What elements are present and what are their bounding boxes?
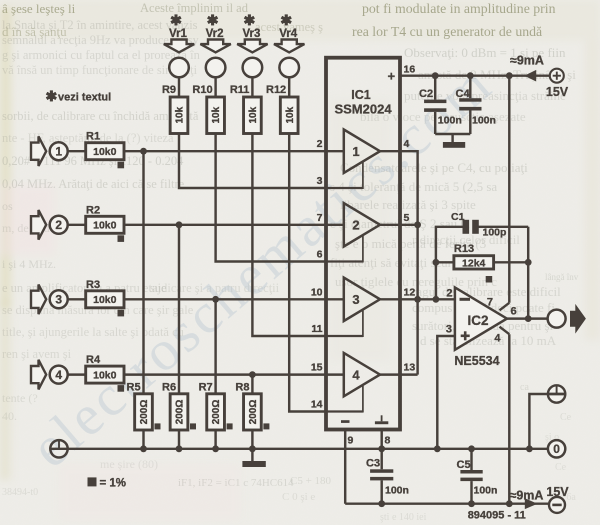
wire bbox=[124, 150, 326, 152]
svg-text:iF1, iF2 = iC1 c 74HC614: iF1, iF2 = iC1 c 74HC614 bbox=[178, 477, 294, 489]
svg-text:rea lor T4 cu un generator de: rea lor T4 cu un generator de undă bbox=[352, 24, 542, 39]
svg-text:R2: R2 bbox=[86, 204, 100, 216]
control arrow Vr3 bbox=[237, 40, 267, 53]
wiper terminal Vr1 bbox=[169, 58, 189, 78]
svg-text:ca: ca bbox=[520, 382, 529, 393]
svg-text:2: 2 bbox=[446, 288, 452, 300]
svg-text:2: 2 bbox=[352, 218, 359, 233]
wiper terminal Vr4 bbox=[279, 58, 299, 78]
svg-text:â şese leşteş li: â şese leşteş li bbox=[2, 1, 76, 16]
junction R8/0V bbox=[249, 445, 256, 452]
output wire bbox=[507, 317, 548, 319]
current arrow 9mA negative bbox=[525, 498, 538, 509]
svg-text:C 0 şi e: C 0 şi e bbox=[282, 491, 315, 503]
svg-text:R11: R11 bbox=[230, 84, 250, 96]
svg-text:Vr3: Vr3 bbox=[242, 28, 260, 40]
pin 4 supply wire bbox=[500, 327, 510, 335]
svg-text:200Ω: 200Ω bbox=[175, 400, 186, 425]
svg-text:100n: 100n bbox=[472, 115, 496, 127]
svg-text:10k: 10k bbox=[175, 106, 186, 123]
capacitor C3 bbox=[380, 449, 382, 470]
resistor R4 bbox=[86, 366, 124, 383]
svg-text:os: os bbox=[2, 199, 13, 213]
wire bbox=[68, 373, 86, 375]
svg-text:✱: ✱ bbox=[46, 88, 58, 104]
resistor R12 bbox=[280, 97, 298, 134]
wire bbox=[251, 77, 253, 97]
wiper terminal Vr3 bbox=[243, 58, 263, 78]
svg-text:R6: R6 bbox=[162, 382, 176, 394]
wire bbox=[124, 224, 326, 226]
resistor R3 bbox=[86, 291, 124, 308]
svg-text:10k0: 10k0 bbox=[93, 220, 117, 232]
wire bbox=[251, 375, 253, 394]
svg-text:ren şi avem şi: ren şi avem şi bbox=[2, 347, 72, 361]
wire bbox=[124, 373, 326, 375]
svg-text:200Ω: 200Ω bbox=[248, 400, 259, 425]
svg-text:14: 14 bbox=[311, 399, 323, 411]
pin 7 supply wire bbox=[500, 303, 510, 311]
wire bbox=[214, 430, 216, 449]
wire bbox=[478, 226, 528, 228]
resistor R6 bbox=[170, 394, 188, 430]
svg-text:11: 11 bbox=[311, 323, 322, 335]
wire bbox=[142, 430, 144, 449]
resistor R7 bbox=[207, 394, 225, 430]
svg-text:12: 12 bbox=[404, 286, 416, 298]
svg-text:R4: R4 bbox=[86, 354, 101, 366]
svg-text:2: 2 bbox=[317, 138, 323, 150]
svg-text:2: 2 bbox=[55, 218, 62, 232]
svg-text:+: + bbox=[388, 69, 396, 84]
wire bbox=[252, 134, 326, 337]
svg-text:NE5534: NE5534 bbox=[454, 354, 499, 368]
svg-text:C5: C5 bbox=[457, 459, 471, 471]
svg-text:1: 1 bbox=[352, 144, 359, 159]
svg-text:✱: ✱ bbox=[170, 12, 182, 28]
IC U1 SSM2024 body bbox=[326, 58, 400, 430]
terminal 0V output bbox=[548, 440, 565, 457]
svg-text:7: 7 bbox=[487, 297, 493, 309]
svg-text:15V: 15V bbox=[546, 85, 569, 99]
svg-text:6: 6 bbox=[317, 249, 323, 261]
wire bbox=[214, 77, 216, 97]
resistor R8 bbox=[244, 394, 262, 430]
capacitor C5 bbox=[468, 445, 475, 452]
VCA amplifier 1 bbox=[344, 130, 380, 173]
wire control stub bbox=[326, 260, 363, 262]
wire bbox=[289, 134, 326, 412]
input terminal 3 bbox=[50, 290, 68, 308]
capacitor C1 bbox=[463, 220, 470, 234]
input arrow J4 bbox=[31, 360, 46, 390]
svg-text:= 1%: = 1% bbox=[100, 478, 127, 490]
wire bbox=[179, 134, 326, 189]
wire bbox=[216, 134, 326, 262]
node divider 1 bbox=[140, 148, 147, 155]
svg-text:12k4: 12k4 bbox=[462, 257, 486, 269]
svg-text:lângă înv: lângă înv bbox=[545, 272, 579, 282]
node divider 4 bbox=[249, 371, 256, 378]
svg-text:R12: R12 bbox=[266, 84, 286, 96]
svg-text:R13: R13 bbox=[454, 243, 474, 255]
wire bbox=[142, 151, 144, 394]
svg-text:15V: 15V bbox=[546, 485, 569, 499]
wire bbox=[494, 261, 529, 263]
pin 5 wire bbox=[400, 224, 418, 226]
svg-text:Vr4: Vr4 bbox=[279, 28, 298, 40]
pin 16 supply wire bbox=[400, 74, 550, 76]
resistor R11 bbox=[244, 97, 262, 134]
wire feedback left bbox=[436, 227, 464, 299]
wire control stub bbox=[326, 410, 363, 412]
wire bbox=[124, 298, 326, 300]
svg-text:Aceste împlinim il ad: Aceste împlinim il ad bbox=[140, 1, 249, 15]
svg-text:10k0: 10k0 bbox=[93, 146, 117, 158]
resistor R10 bbox=[207, 97, 225, 134]
wire bbox=[380, 150, 400, 152]
svg-text:pot fi modulate in amplitudine: pot fi modulate in amplitudine prin bbox=[362, 1, 556, 16]
svg-text:g şi armonici cu faptul ca el: g şi armonici cu faptul ca el prorează î… bbox=[2, 48, 201, 62]
terminal -15V bbox=[549, 497, 565, 513]
input arrow J1 bbox=[31, 136, 46, 166]
svg-text:10k: 10k bbox=[285, 106, 296, 123]
VCA amplifier 2 bbox=[344, 203, 380, 246]
VCA amplifier 4 bbox=[344, 353, 380, 396]
wire bbox=[380, 298, 400, 300]
node C2 bbox=[432, 72, 439, 79]
wire feedback right bbox=[527, 227, 529, 319]
svg-text:10k: 10k bbox=[248, 106, 259, 123]
pin 3 wire to 0V bbox=[437, 336, 455, 449]
svg-text:4: 4 bbox=[55, 368, 62, 382]
svg-text:200Ω: 200Ω bbox=[139, 400, 150, 425]
svg-text:100p: 100p bbox=[483, 227, 507, 239]
svg-text:tente (?: tente (? bbox=[2, 391, 38, 405]
svg-text:3: 3 bbox=[352, 292, 359, 307]
op-amp U2 NE5534 bbox=[455, 287, 507, 349]
svg-text:✱: ✱ bbox=[244, 12, 256, 28]
capacitor C2 bbox=[434, 76, 436, 100]
svg-text:R10: R10 bbox=[192, 84, 212, 96]
resistor R5 bbox=[135, 394, 153, 430]
wire bbox=[68, 224, 86, 226]
svg-text:16: 16 bbox=[404, 64, 416, 76]
wire bbox=[68, 298, 86, 300]
wire bbox=[214, 299, 216, 394]
wire bbox=[380, 373, 400, 375]
junction R5/0V bbox=[140, 445, 147, 452]
ground terminal left bbox=[50, 440, 67, 457]
svg-text:✱: ✱ bbox=[207, 12, 219, 28]
input terminal 4 bbox=[50, 366, 68, 384]
svg-text:894095 - 11: 894095 - 11 bbox=[468, 510, 526, 522]
ground bbox=[443, 142, 465, 148]
node C4 bbox=[467, 72, 474, 79]
svg-text:3: 3 bbox=[317, 175, 323, 187]
wire bbox=[178, 225, 180, 394]
wire bbox=[435, 133, 470, 135]
wire bbox=[68, 150, 86, 152]
svg-text:C4: C4 bbox=[456, 88, 471, 100]
svg-text:100n: 100n bbox=[474, 485, 498, 497]
pin 4 wire bbox=[400, 151, 418, 374]
svg-text:38494-t0: 38494-t0 bbox=[2, 487, 38, 498]
svg-text:200Ω: 200Ω bbox=[211, 400, 222, 425]
svg-text:10k: 10k bbox=[211, 106, 222, 123]
capacitor C4 bbox=[469, 76, 471, 99]
pin 13 wire bbox=[400, 373, 418, 375]
svg-text:Vr2: Vr2 bbox=[206, 28, 224, 40]
control arrow Vr2 bbox=[200, 40, 230, 53]
svg-text:1: 1 bbox=[55, 145, 62, 159]
svg-text:R5: R5 bbox=[127, 382, 141, 394]
pin 8 ground mark bbox=[375, 421, 388, 424]
wire control stub bbox=[326, 335, 363, 337]
svg-text:7: 7 bbox=[317, 212, 323, 224]
svg-text:0,04 MHz. Arătaţi de aici că s: 0,04 MHz. Arătaţi de aici că se filtre bbox=[2, 177, 185, 191]
svg-text:Ce: Ce bbox=[560, 412, 572, 423]
svg-text:6: 6 bbox=[511, 306, 517, 318]
junction R7/0V bbox=[212, 445, 219, 452]
input arrow J2 bbox=[31, 210, 46, 240]
svg-text:4: 4 bbox=[404, 138, 410, 150]
junction R6/0V bbox=[176, 445, 183, 452]
pin 12 wire to IC2 bbox=[400, 298, 455, 300]
wiper terminal Vr2 bbox=[206, 58, 226, 78]
terminal +15V bbox=[550, 69, 564, 83]
svg-text:C2: C2 bbox=[419, 88, 433, 100]
node divider 3 bbox=[212, 296, 219, 303]
svg-text:✱: ✱ bbox=[280, 12, 292, 28]
wire bbox=[529, 394, 548, 449]
node IC2 supply bbox=[506, 72, 513, 79]
VCA amplifier 3 bbox=[344, 278, 380, 321]
svg-text:C3: C3 bbox=[366, 458, 380, 470]
svg-text:R9: R9 bbox=[162, 84, 176, 96]
output terminal bbox=[548, 310, 566, 328]
svg-text:9: 9 bbox=[348, 435, 354, 447]
svg-text:3: 3 bbox=[55, 293, 62, 307]
input terminal 1 bbox=[50, 142, 68, 160]
pin 9 minus mark bbox=[341, 420, 350, 423]
wire bbox=[288, 77, 290, 97]
svg-text:i şi 4 MHz.: i şi 4 MHz. bbox=[2, 257, 56, 271]
svg-text:4: 4 bbox=[494, 333, 501, 345]
svg-text:IC1: IC1 bbox=[351, 88, 371, 102]
wire bbox=[178, 77, 180, 97]
svg-text:IC2: IC2 bbox=[467, 313, 488, 328]
chassis terminal bbox=[548, 385, 565, 402]
svg-text:15: 15 bbox=[311, 362, 323, 374]
svg-text:C1: C1 bbox=[451, 211, 465, 223]
note 1 percent bbox=[88, 477, 97, 486]
svg-text:8: 8 bbox=[385, 435, 391, 447]
svg-text:R3: R3 bbox=[86, 279, 100, 291]
resistor R1 bbox=[86, 143, 124, 160]
svg-text:4: 4 bbox=[352, 367, 360, 382]
svg-text:R7: R7 bbox=[199, 382, 213, 394]
wire bbox=[178, 430, 180, 449]
svg-text:Vr1: Vr1 bbox=[169, 28, 188, 40]
svg-text:5: 5 bbox=[404, 212, 410, 224]
svg-text:100n: 100n bbox=[438, 115, 462, 127]
output arrow bbox=[570, 304, 586, 334]
control arrow Vr4 bbox=[274, 40, 304, 53]
ground symbol bbox=[251, 449, 253, 461]
svg-text:0: 0 bbox=[553, 442, 560, 456]
wire 0V bus bbox=[51, 448, 548, 450]
current arrow 9mA positive bbox=[524, 70, 536, 82]
svg-text:R8: R8 bbox=[235, 382, 249, 394]
svg-text:10k0: 10k0 bbox=[93, 369, 117, 381]
svg-text:3: 3 bbox=[446, 324, 452, 336]
svg-text:C5 + 180: C5 + 180 bbox=[290, 475, 332, 487]
wire control stub bbox=[326, 187, 363, 189]
input arrow J3 bbox=[31, 285, 46, 315]
wire bbox=[251, 430, 253, 449]
svg-text:≈9mA: ≈9mA bbox=[510, 54, 544, 68]
pin 9 wire bbox=[344, 430, 346, 504]
resistor R2 bbox=[86, 216, 124, 233]
control arrow Vr1 bbox=[164, 40, 194, 53]
wire bbox=[380, 224, 400, 226]
resistor R9 bbox=[170, 97, 188, 134]
svg-text:R1: R1 bbox=[86, 131, 100, 143]
svg-text:100n: 100n bbox=[385, 485, 409, 497]
node divider 2 bbox=[176, 221, 183, 228]
svg-text:13: 13 bbox=[404, 362, 416, 374]
input terminal 2 bbox=[50, 216, 68, 234]
svg-text:Ce: Ce bbox=[555, 462, 567, 473]
svg-text:40.: 40. bbox=[2, 409, 17, 423]
svg-text:10: 10 bbox=[311, 286, 323, 298]
svg-text:≈9mA: ≈9mA bbox=[510, 489, 544, 503]
pin 8 wire bbox=[380, 430, 382, 449]
wire -15V rail bbox=[345, 503, 549, 505]
resistor R13 bbox=[436, 261, 454, 263]
svg-text:10k0: 10k0 bbox=[93, 294, 117, 306]
svg-text:şti e 140 iei: şti e 140 iei bbox=[380, 512, 427, 523]
svg-text:vezi textul: vezi textul bbox=[58, 92, 111, 104]
svg-text:me şire (80): me şire (80) bbox=[100, 457, 158, 471]
svg-text:SSM2024: SSM2024 bbox=[334, 102, 392, 117]
